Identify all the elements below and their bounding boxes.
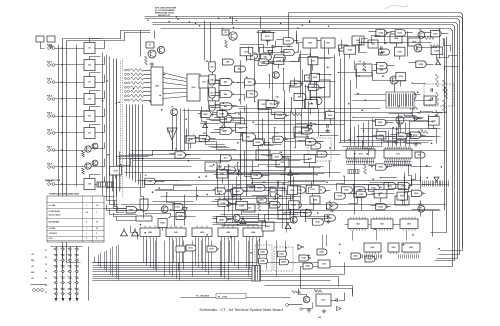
wire top-center route bbox=[249, 47, 251, 61]
pin lead bbox=[61, 276, 62, 278]
dashed module box bbox=[308, 138, 331, 161]
wire U168 pin bbox=[190, 144, 192, 149]
wire conn col 4 bbox=[76, 247, 78, 299]
svg-text:KB-8: KB-8 bbox=[47, 164, 53, 166]
capacitor conn 1-8 bbox=[54, 288, 57, 289]
wire right-low route bbox=[393, 166, 432, 167]
svg-text:P3: P3 bbox=[45, 264, 47, 266]
wire route h1 bbox=[131, 150, 447, 152]
wire center route bbox=[284, 69, 285, 112]
wire route v6 bbox=[240, 111, 242, 201]
IC U65 bbox=[400, 217, 418, 231]
wire tap extra 5 bbox=[183, 241, 185, 270]
wire RN1 to U29 bbox=[144, 70, 151, 72]
pin lead bbox=[61, 271, 62, 273]
inverter U120 top-right bbox=[436, 59, 441, 65]
wire route h5 bbox=[145, 184, 431, 186]
svg-text:7: 7 bbox=[86, 205, 87, 207]
wire bus left tap 7 bbox=[112, 247, 114, 277]
connector P10 bbox=[286, 304, 289, 307]
junction bbox=[330, 74, 331, 75]
junction J2 bus bbox=[61, 64, 62, 65]
pin tick U71 b bbox=[394, 164, 396, 167]
part TL2 bbox=[47, 36, 55, 42]
junction bbox=[241, 199, 242, 200]
wire U41 pin 2 to bus bbox=[172, 239, 174, 277]
table col line 2 bbox=[92, 197, 94, 243]
wire top-right route bbox=[363, 36, 381, 43]
pin tick cluster top bbox=[430, 181, 432, 187]
wire U151 pin bbox=[312, 194, 314, 197]
junction bus bbox=[236, 20, 237, 21]
svg-text:47: 47 bbox=[145, 174, 147, 177]
wire route v15 bbox=[350, 81, 352, 143]
arrow conn col 3 bbox=[69, 298, 72, 302]
junction bbox=[285, 137, 286, 138]
resistor R1 bbox=[145, 56, 148, 65]
wire U2c out bbox=[212, 99, 214, 103]
wire center-low route bbox=[252, 189, 287, 196]
pin tick bottom bbox=[364, 255, 366, 259]
pin tick bottom 2 bbox=[416, 255, 418, 259]
junction bbox=[209, 119, 210, 120]
gate U18f bbox=[299, 255, 311, 261]
resistor RN5 bbox=[125, 86, 127, 88]
IC U151 center-low bbox=[306, 185, 319, 193]
svg-text:.1: .1 bbox=[311, 99, 313, 101]
wire route h9 bbox=[235, 112, 447, 114]
symbol hatch bbox=[170, 130, 171, 133]
transistor Q142 center-low bbox=[290, 216, 297, 223]
svg-text:U4f: U4f bbox=[226, 61, 229, 64]
wire left-low route bbox=[119, 152, 121, 192]
IC U162 right-low bbox=[397, 192, 408, 200]
dashed module box 2 bbox=[424, 84, 454, 106]
junction bbox=[224, 126, 225, 127]
table row line bbox=[47, 240, 105, 242]
pin tick U71 bbox=[402, 161, 404, 164]
IC U94 bbox=[390, 34, 402, 43]
wire bus left tap 2 bbox=[98, 255, 100, 266]
junction bbox=[200, 123, 201, 124]
wire tap extra 7 bbox=[201, 241, 203, 263]
wire U9 clock bbox=[90, 175, 101, 179]
wire U160 in bbox=[406, 191, 412, 193]
wire U180 out bbox=[186, 154, 191, 156]
junction bbox=[107, 187, 108, 188]
junction bbox=[316, 174, 317, 175]
pin tick U71 b bbox=[389, 164, 391, 167]
bus terminator bar bbox=[252, 266, 261, 282]
resistor R12 bbox=[436, 110, 439, 123]
pin tick U71 b bbox=[410, 164, 412, 167]
junction bbox=[365, 99, 367, 101]
wire field h3 bbox=[213, 222, 259, 224]
wire right cluster v bbox=[432, 211, 434, 237]
svg-text:U13f: U13f bbox=[337, 196, 341, 198]
pin tick U71 bbox=[404, 161, 406, 164]
symbol hatch bbox=[168, 130, 169, 133]
wire U182 in bbox=[138, 180, 146, 182]
gate U18a bbox=[259, 249, 268, 255]
pin lead bbox=[54, 271, 55, 273]
svg-text:2N5: 2N5 bbox=[435, 115, 438, 117]
junction bbox=[431, 143, 433, 145]
junction bbox=[254, 83, 255, 84]
inverter U115 center bbox=[274, 100, 280, 105]
dashed box cluster B bbox=[274, 247, 293, 271]
wire left rail 2 bbox=[67, 41, 81, 263]
junction bbox=[238, 113, 240, 115]
wire right-mid route bbox=[399, 114, 400, 128]
gate U136 center-low bbox=[255, 185, 267, 191]
wire bus cont 1 bbox=[261, 263, 345, 275]
gate U149 center-low bbox=[217, 217, 229, 223]
wire conn col 2 bbox=[62, 247, 64, 299]
inverter U139 center-low bbox=[288, 169, 293, 175]
wire U171 pin bbox=[241, 133, 243, 137]
pin lead bbox=[68, 260, 69, 262]
junction bbox=[233, 196, 235, 198]
junction bbox=[237, 224, 239, 226]
gate U175 top-center bbox=[283, 38, 294, 44]
wire top-center route bbox=[258, 32, 276, 34]
connector pin 3-9 bbox=[69, 293, 71, 295]
wire center-low route bbox=[214, 174, 318, 176]
junction bus bbox=[233, 27, 234, 28]
wire long v325 bbox=[324, 41, 326, 121]
pin strip cluster mid bbox=[423, 184, 449, 186]
wire v225 bbox=[224, 187, 226, 227]
wire center-low route bbox=[252, 182, 326, 183]
resistor RN3 bbox=[125, 78, 127, 80]
wire res block down 4 bbox=[135, 105, 137, 183]
junction bbox=[382, 75, 384, 77]
svg-text:U18c: U18c bbox=[279, 254, 284, 256]
pin lead bbox=[75, 293, 76, 295]
wire U42 pin 3 to bus bbox=[202, 239, 204, 270]
capacitor conn 1-4 bbox=[54, 266, 57, 267]
wire h199 bbox=[223, 198, 293, 200]
junction bbox=[227, 171, 229, 173]
gate U12b bbox=[176, 213, 186, 220]
pin tick bottom bbox=[380, 255, 382, 259]
junction bbox=[197, 195, 199, 197]
pin tick U71 b bbox=[393, 164, 395, 167]
gate U144 center-low bbox=[270, 202, 281, 208]
inverter U11b bbox=[132, 229, 139, 236]
pin lead bbox=[54, 282, 55, 284]
svg-text:R13: R13 bbox=[417, 113, 420, 115]
wire U131 pin bbox=[433, 126, 435, 129]
gate U72 bbox=[415, 152, 425, 158]
resistor RN8 zigzag bbox=[131, 99, 144, 102]
svg-text:U169: U169 bbox=[219, 114, 224, 116]
wire RN5 to U29 bbox=[144, 87, 151, 89]
wire bus left tap 1 bbox=[94, 257, 96, 263]
resistor RN6 zigzag bbox=[131, 90, 144, 93]
pin strip lower tick bbox=[351, 170, 353, 174]
IC U90 bbox=[303, 38, 317, 48]
wire bus cont 4 bbox=[265, 286, 353, 295]
junction bbox=[339, 244, 341, 246]
wire left-low route bbox=[121, 166, 192, 168]
wire right-low route bbox=[409, 179, 412, 193]
wire right-low route bbox=[404, 173, 406, 206]
svg-text:47: 47 bbox=[309, 53, 311, 56]
bus collector hatch bbox=[100, 183, 102, 187]
wire U166 in bbox=[369, 165, 377, 167]
wire border tap bbox=[178, 263, 180, 271]
IC U184 left-low bbox=[158, 219, 167, 228]
wire route h128 bbox=[361, 128, 441, 130]
arrow out right bbox=[337, 307, 342, 311]
wire U172 out bbox=[210, 138, 216, 140]
pin lead bbox=[61, 248, 62, 250]
gate U158 right-low bbox=[376, 204, 388, 210]
pin strip mid U71 b bbox=[385, 164, 412, 166]
connector pin 4-1 bbox=[76, 248, 78, 250]
junction bbox=[375, 228, 377, 230]
wire U90-U91 bbox=[317, 40, 321, 42]
wire conn col extra bbox=[88, 247, 90, 301]
junction bbox=[149, 101, 151, 103]
svg-text:U2c: U2c bbox=[210, 93, 213, 95]
wire U134 pin bbox=[381, 139, 383, 146]
IC U34 bbox=[294, 127, 307, 137]
gate U132 right-mid bbox=[397, 133, 408, 139]
pin tick U71 b bbox=[402, 164, 404, 167]
junction bbox=[396, 128, 398, 130]
inverter U14a bbox=[276, 193, 283, 199]
wire U149 out bbox=[228, 219, 232, 221]
gate U172 left-mid bbox=[199, 135, 210, 141]
wire U4d in1 bbox=[215, 117, 221, 119]
svg-text:P2: P2 bbox=[45, 257, 47, 259]
wire U70 pin up 5 bbox=[368, 121, 370, 147]
wire route h7 bbox=[161, 196, 301, 198]
junction bbox=[384, 43, 385, 44]
junction J7 bus bbox=[61, 149, 62, 150]
junction bus bbox=[147, 20, 148, 21]
IC U30 bbox=[187, 74, 200, 101]
wire Q1 up bbox=[154, 31, 156, 39]
bus wire top edge bbox=[289, 13, 463, 247]
wire J6 to U6 bbox=[55, 132, 85, 134]
wire long v420 bbox=[420, 151, 422, 183]
pin tick cluster top bbox=[437, 181, 439, 187]
junction bbox=[145, 213, 146, 214]
gate U182 left-low bbox=[145, 178, 156, 184]
ground Q10 bbox=[307, 308, 311, 312]
svg-text:U151: U151 bbox=[310, 189, 314, 191]
wire top-right route bbox=[358, 42, 432, 44]
gate U2b bbox=[209, 75, 215, 85]
svg-text:U128: U128 bbox=[418, 64, 423, 66]
gate U20c bbox=[257, 197, 267, 203]
pin tick U71 b bbox=[404, 164, 406, 167]
resistor R21 bbox=[430, 45, 440, 48]
wire field v4 bbox=[184, 109, 186, 151]
wire U152 out bbox=[226, 191, 231, 193]
wire U177 out bbox=[295, 52, 299, 54]
wire field v5 bbox=[188, 109, 190, 151]
wire U172 in bbox=[195, 137, 200, 139]
junction bbox=[279, 164, 280, 165]
svg-text:U102: U102 bbox=[309, 104, 313, 106]
wire v287 bbox=[286, 191, 288, 233]
pin lead bbox=[68, 265, 69, 267]
pin tick cluster top bbox=[440, 181, 442, 187]
wire data bundle 4 bbox=[114, 59, 122, 209]
capacitor conn 2-4 bbox=[61, 266, 64, 267]
wire J9 to U9 bbox=[55, 184, 85, 186]
inverter U161 right-low bbox=[434, 177, 439, 183]
junction bus bbox=[195, 23, 196, 24]
capacitor conn 3-8 bbox=[68, 288, 71, 289]
gate U5f bbox=[291, 81, 302, 87]
pin tick U71 bbox=[398, 161, 400, 164]
pin tick U70 bbox=[352, 161, 354, 164]
svg-text:KB-3: KB-3 bbox=[47, 79, 53, 81]
wire center route bbox=[312, 59, 317, 105]
wire U103 out bbox=[284, 139, 289, 141]
junction bbox=[412, 82, 413, 83]
wire top-center route bbox=[276, 41, 282, 54]
svg-text:U106: U106 bbox=[256, 142, 261, 144]
pin lead bbox=[68, 288, 69, 290]
junction bus bbox=[230, 17, 231, 18]
pin lead bbox=[54, 260, 55, 262]
gate U163 right-low bbox=[356, 191, 367, 197]
svg-text:1: 1 bbox=[86, 228, 87, 230]
svg-text:2: 2 bbox=[86, 238, 87, 240]
junction bbox=[298, 51, 299, 52]
gate U7b bbox=[317, 151, 327, 157]
wire left rail 1 bbox=[62, 39, 64, 269]
svg-text:3: 3 bbox=[96, 233, 97, 235]
ground R16 bbox=[414, 142, 418, 146]
wire U182 out bbox=[156, 181, 165, 183]
gate U147 center-low bbox=[233, 188, 244, 194]
svg-text:+5V: +5V bbox=[31, 254, 34, 256]
wire center-low route bbox=[293, 177, 295, 223]
gate U17b bbox=[207, 246, 219, 252]
wire bus left tap 6 bbox=[110, 249, 112, 275]
latch U4 bbox=[84, 94, 95, 105]
svg-text:U167: U167 bbox=[203, 114, 208, 116]
gate U18d bbox=[280, 259, 289, 265]
svg-text:U181: U181 bbox=[113, 170, 117, 172]
junction bbox=[320, 135, 321, 136]
IC U126 top-right bbox=[396, 72, 406, 81]
ground C157 bbox=[326, 220, 330, 224]
junction bus bbox=[280, 23, 281, 24]
svg-text:.1: .1 bbox=[219, 109, 221, 111]
wire U29-U30 6 bbox=[163, 97, 187, 99]
wire U119 in bbox=[374, 64, 378, 66]
pin tick U71 b bbox=[398, 164, 400, 167]
junction bbox=[293, 213, 295, 215]
bus wire data 1 bbox=[93, 262, 253, 264]
junction bbox=[107, 154, 109, 156]
svg-text:.1: .1 bbox=[206, 110, 208, 112]
wire RN7 to U29 bbox=[144, 95, 151, 97]
wire center route bbox=[262, 58, 335, 62]
wire right inner bus 2 bbox=[431, 37, 447, 233]
junction bbox=[152, 191, 154, 193]
junction bbox=[237, 82, 239, 84]
pin tick U71 bbox=[400, 161, 402, 164]
junction bbox=[403, 244, 405, 246]
table col line 1 bbox=[82, 197, 84, 243]
inverter U11c bbox=[240, 217, 246, 224]
junction bbox=[206, 60, 208, 62]
transistor Q6 bbox=[396, 116, 404, 124]
pin tick cluster top bbox=[442, 181, 444, 187]
pin lead bbox=[75, 271, 76, 273]
svg-text:U7c: U7c bbox=[224, 158, 227, 160]
connector J4 bbox=[47, 95, 55, 101]
wire route v2 bbox=[204, 21, 206, 61]
junction bbox=[274, 127, 275, 128]
connector pin 1-1 bbox=[55, 248, 57, 250]
svg-text:P1: P1 bbox=[45, 250, 47, 252]
wire top-right route bbox=[356, 39, 368, 45]
wire center-low route bbox=[238, 163, 239, 177]
wire U135 out bbox=[387, 122, 394, 124]
capacitor C157 center-low bbox=[328, 215, 329, 219]
bus wire data 2 bbox=[93, 265, 253, 267]
wire U159 pin bbox=[380, 198, 382, 203]
wire left-low route bbox=[153, 201, 194, 203]
gate U13f bbox=[335, 193, 346, 199]
pin lead bbox=[75, 248, 76, 250]
capacitor conn 3-2 bbox=[68, 255, 71, 256]
svg-text:U156: U156 bbox=[290, 190, 294, 192]
wire U128 in bbox=[409, 62, 417, 64]
svg-text:U118: U118 bbox=[348, 50, 352, 52]
gate U169 left-mid bbox=[217, 111, 229, 117]
wire U106 out bbox=[264, 142, 271, 144]
transistor Q16 bbox=[85, 146, 91, 152]
IC U60 bbox=[348, 217, 368, 231]
wire U4b in2 bbox=[211, 95, 221, 97]
wire U101 out bbox=[320, 87, 325, 89]
transistor Q7 bbox=[414, 44, 422, 52]
svg-text:U149: U149 bbox=[219, 218, 224, 221]
pin tick bottom bbox=[381, 255, 383, 259]
wire data bundle 2 bbox=[107, 55, 117, 201]
wire U42 pin 4 to bus bbox=[205, 239, 207, 272]
pin tick cluster top bbox=[444, 181, 446, 187]
resistor RN3 zigzag bbox=[131, 77, 144, 80]
wire left rail 4 bbox=[76, 45, 78, 187]
wire center route bbox=[254, 57, 256, 102]
wire top-right route bbox=[339, 73, 407, 81]
wire center-low route bbox=[236, 177, 238, 206]
wire U4c in1 bbox=[215, 104, 221, 106]
pin tick U70 bbox=[371, 161, 373, 164]
bus bar hatch bbox=[254, 266, 256, 281]
wire U4b in1 bbox=[215, 92, 221, 94]
IC U47 bbox=[262, 222, 274, 231]
wire conn col 1 bbox=[56, 247, 58, 299]
IC U46 bbox=[278, 210, 290, 219]
svg-text:P6: P6 bbox=[45, 285, 47, 287]
ground C146 bbox=[218, 164, 222, 168]
wire center-low route bbox=[309, 182, 312, 193]
